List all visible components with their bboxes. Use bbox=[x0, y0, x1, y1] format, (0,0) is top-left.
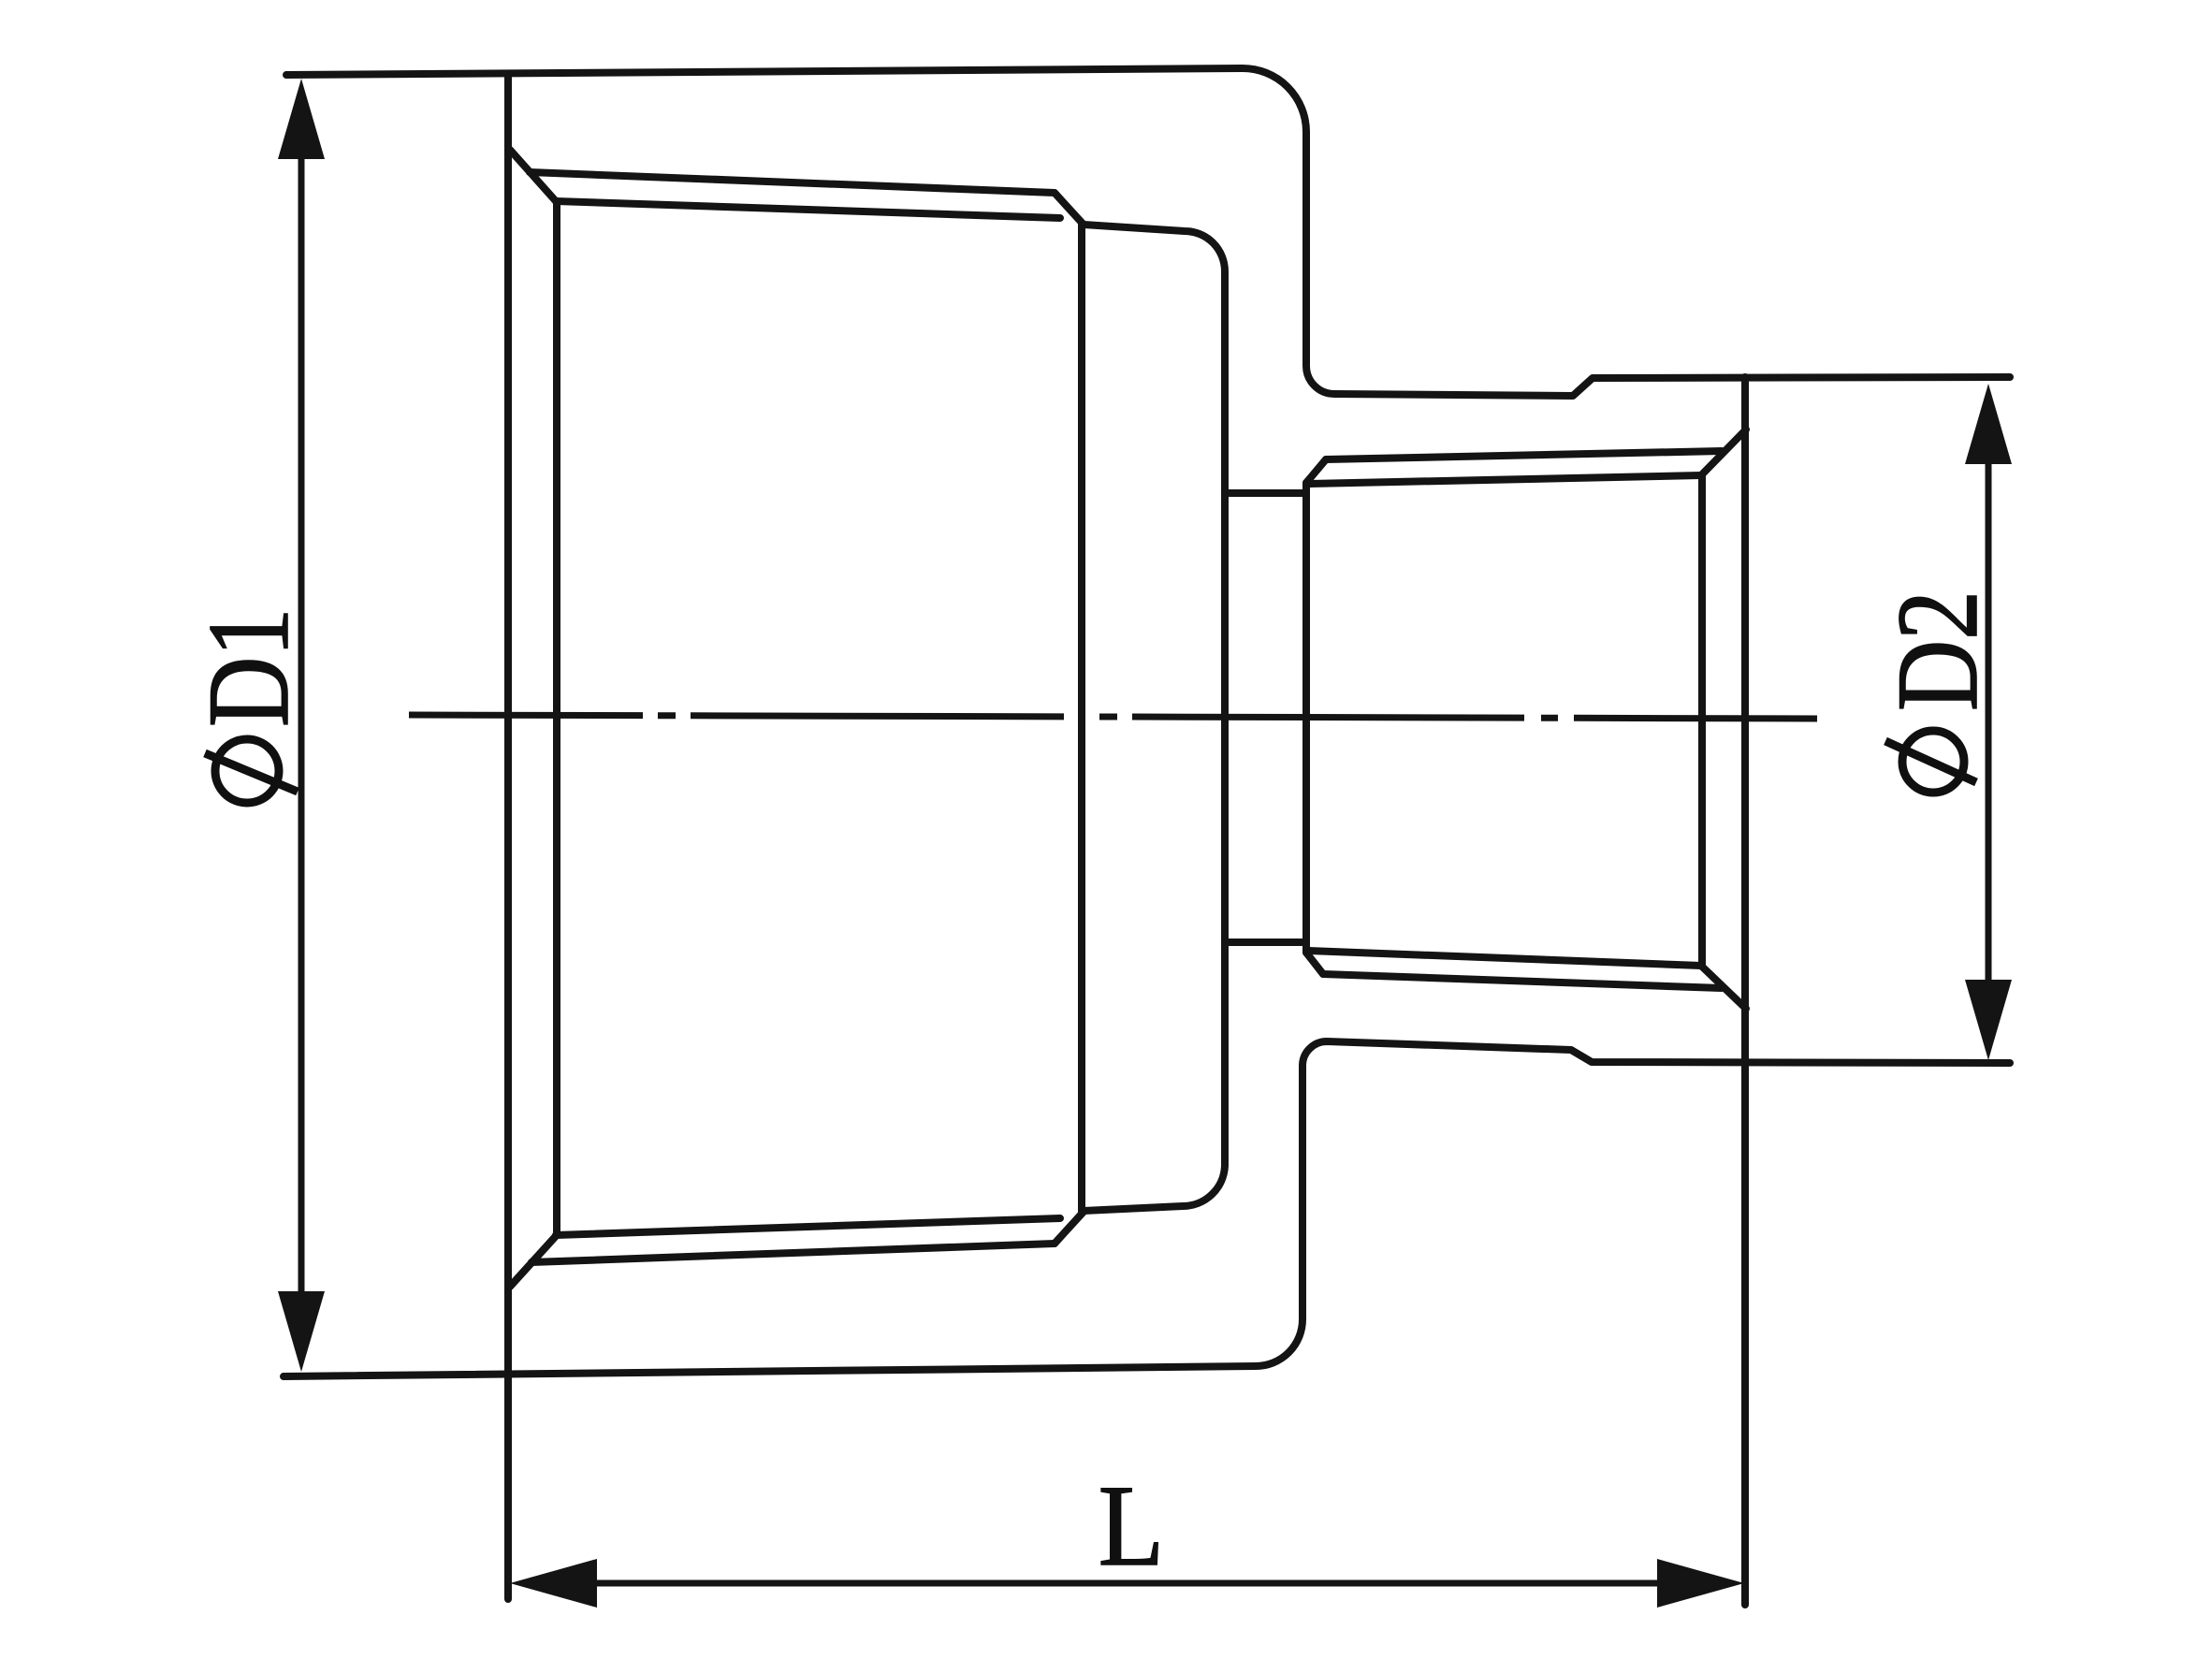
small socket taper line S2 bottom bbox=[1308, 951, 1701, 966]
svg-text:L: L bbox=[1099, 1461, 1164, 1590]
outer profile bottom: D1 bottom extension, body OD bottom, neck, D2 bottom extension bbox=[284, 1041, 2010, 1376]
internal bore step between sockets bbox=[1084, 225, 1225, 1211]
small socket inner chamfer bottom-left bbox=[1306, 953, 1323, 974]
small socket bottom face vertical bbox=[1302, 483, 1310, 953]
arrowhead D1 up bbox=[278, 79, 325, 159]
small socket inner chamfer top-left bbox=[1306, 459, 1326, 483]
arrowhead D2 down bbox=[1965, 980, 2012, 1060]
dimension line L bbox=[580, 1580, 1675, 1587]
small socket mouth chamfer top bbox=[1701, 429, 1746, 475]
small socket taper line S1 bottom bbox=[1323, 974, 1722, 988]
big socket taper line S4 bottom bbox=[556, 1218, 1060, 1235]
label phi symbol of D2 bbox=[1885, 731, 1976, 793]
arrowhead L right bbox=[1657, 1559, 1744, 1608]
big socket mouth chamfer top bbox=[510, 150, 556, 201]
step branch top bbox=[1225, 489, 1306, 497]
step branch bottom bbox=[1225, 939, 1306, 946]
big socket end face vertical bbox=[1078, 225, 1085, 1212]
big socket taper line S4 top bbox=[556, 201, 1060, 218]
small socket mouth chamfer bottom bbox=[1701, 966, 1746, 1009]
big socket taper line S3 bottom bbox=[531, 1244, 1055, 1262]
dimension line D2 bbox=[1986, 458, 1992, 992]
big socket taper line S3 top bbox=[530, 172, 1055, 193]
svg-text:D2: D2 bbox=[1872, 590, 2001, 711]
big socket end chamfer bottom bbox=[1055, 1212, 1084, 1244]
arrowhead L left bbox=[510, 1559, 597, 1608]
label phi symbol of D1 bbox=[205, 739, 298, 803]
small socket taper line S2 top bbox=[1310, 475, 1701, 484]
big socket mouth face vertical (also L left extension) bbox=[504, 74, 512, 1599]
small socket taper line S1 top bbox=[1326, 451, 1722, 459]
arrowhead D1 down bbox=[278, 1291, 325, 1372]
small socket mouth face vertical (also D2 extension and L right extension) bbox=[1741, 377, 1749, 1605]
outer profile top: D1 top extension, body OD top, neck, D2 top extension bbox=[286, 68, 2010, 396]
arrowhead D2 up bbox=[1965, 384, 2012, 464]
big socket chamfer ring vertical bbox=[553, 201, 560, 1235]
big socket mouth chamfer bottom bbox=[510, 1236, 556, 1287]
small socket chamfer ring vertical bbox=[1698, 475, 1706, 966]
svg-text:D1: D1 bbox=[184, 608, 313, 727]
dimension line D1 bbox=[298, 150, 305, 1301]
center line (dash-dot axis) bbox=[409, 715, 1817, 719]
big socket end chamfer top bbox=[1055, 193, 1084, 225]
